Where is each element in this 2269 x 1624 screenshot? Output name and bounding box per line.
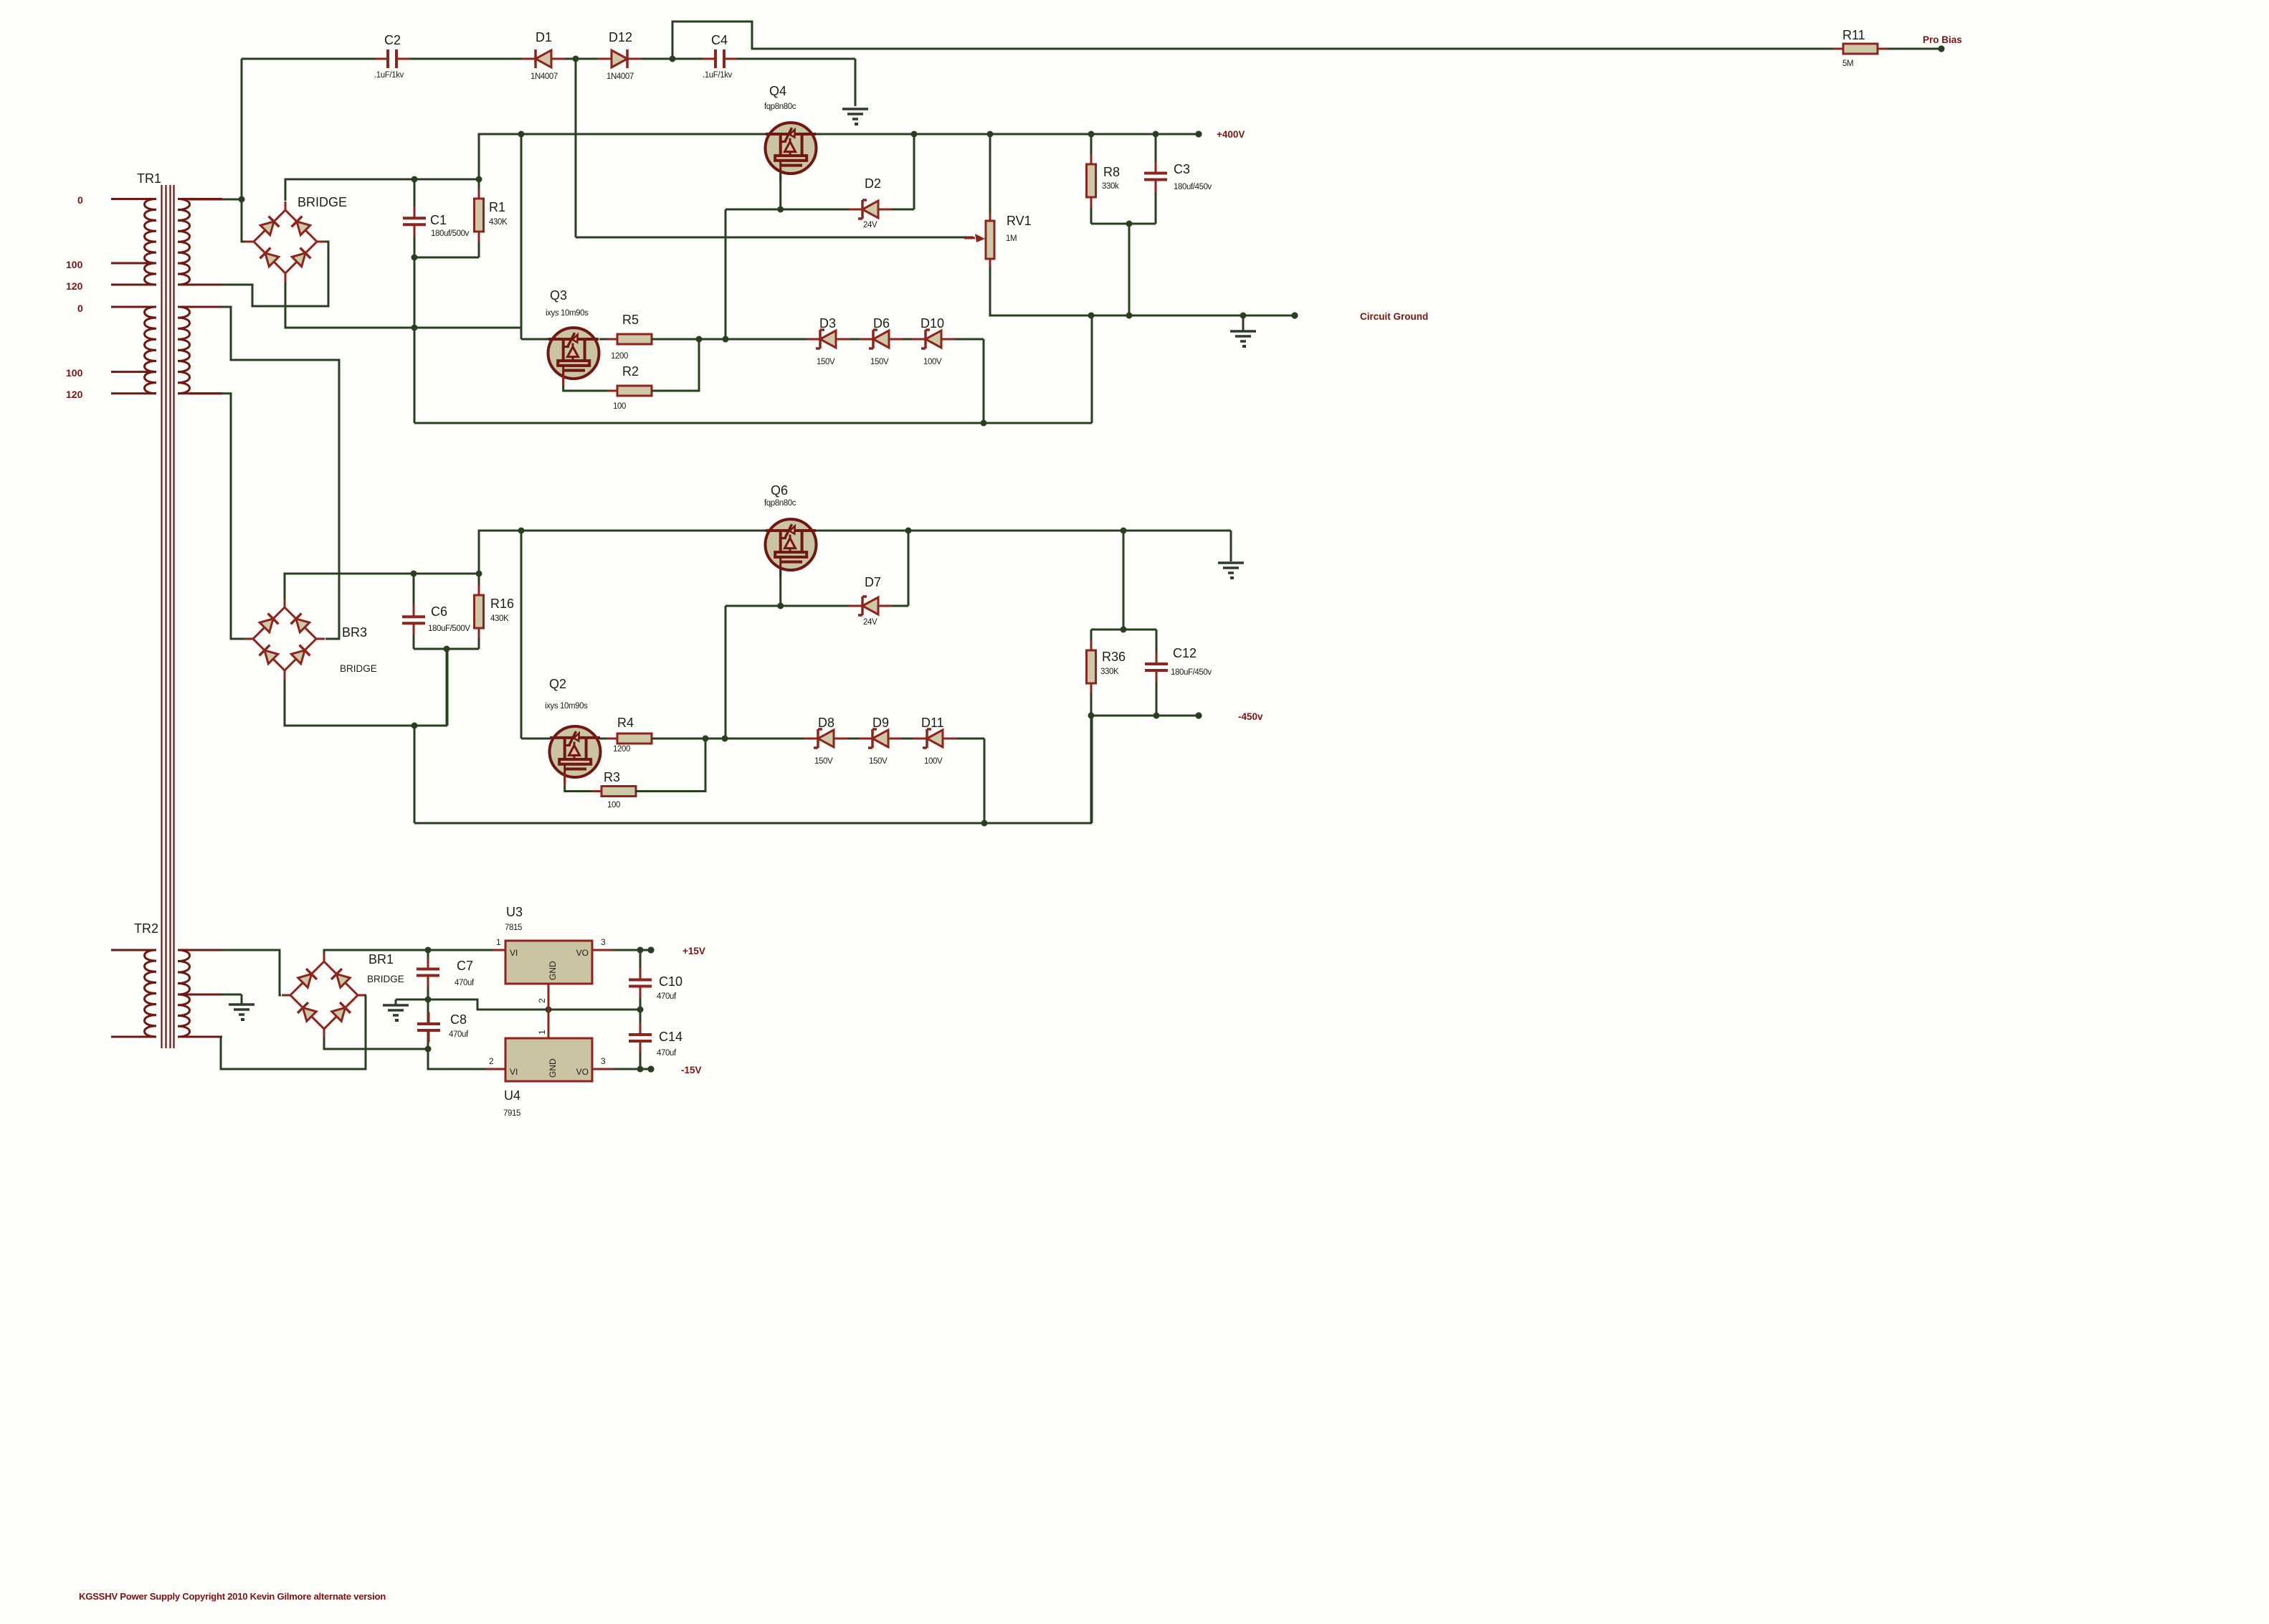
svg-text:+15V: +15V xyxy=(682,946,705,956)
svg-text:0: 0 xyxy=(77,303,83,314)
svg-text:3: 3 xyxy=(601,937,606,947)
svg-text:R4: R4 xyxy=(617,716,634,730)
svg-text:C6: C6 xyxy=(431,604,447,619)
svg-text:ixys 10m90s: ixys 10m90s xyxy=(546,309,589,318)
svg-text:1: 1 xyxy=(496,937,501,947)
svg-text:R16: R16 xyxy=(490,597,514,611)
svg-text:VO: VO xyxy=(576,948,589,958)
svg-text:100: 100 xyxy=(66,367,83,379)
svg-text:1: 1 xyxy=(537,1030,547,1035)
svg-text:ixys 10m90s: ixys 10m90s xyxy=(545,702,588,711)
svg-text:430K: 430K xyxy=(489,218,508,227)
svg-text:GND: GND xyxy=(548,961,558,980)
svg-text:R3: R3 xyxy=(604,770,620,784)
svg-text:120: 120 xyxy=(66,280,83,292)
svg-text:C14: C14 xyxy=(659,1030,682,1044)
svg-text:150V: 150V xyxy=(817,358,835,366)
svg-text:1N4007: 1N4007 xyxy=(531,72,558,81)
svg-text:GND: GND xyxy=(548,1058,558,1078)
svg-text:fqp8n80c: fqp8n80c xyxy=(764,103,796,111)
svg-text:150V: 150V xyxy=(814,757,833,766)
svg-text:Pro Bias: Pro Bias xyxy=(1923,34,1962,45)
svg-text:.1uF/1kv: .1uF/1kv xyxy=(703,71,733,80)
svg-text:24V: 24V xyxy=(863,221,877,229)
svg-text:5M: 5M xyxy=(1842,60,1853,68)
svg-text:Q2: Q2 xyxy=(549,677,566,691)
svg-text:D9: D9 xyxy=(872,716,889,730)
svg-text:Q3: Q3 xyxy=(550,288,567,303)
svg-text:100V: 100V xyxy=(923,358,942,366)
svg-text:470uf: 470uf xyxy=(657,992,677,1001)
svg-text:C7: C7 xyxy=(457,959,473,973)
svg-text:VO: VO xyxy=(576,1067,589,1077)
svg-text:180uF/450v: 180uF/450v xyxy=(1171,668,1212,677)
svg-text:470uf: 470uf xyxy=(455,979,475,987)
svg-text:C4: C4 xyxy=(711,33,728,47)
svg-text:R5: R5 xyxy=(622,313,639,327)
svg-text:BR3: BR3 xyxy=(342,625,367,640)
svg-text:470uf: 470uf xyxy=(657,1049,677,1058)
svg-text:U3: U3 xyxy=(506,905,523,919)
svg-text:180uf/500v: 180uf/500v xyxy=(431,229,470,238)
svg-text:TR2: TR2 xyxy=(134,921,158,936)
svg-text:C1: C1 xyxy=(430,213,447,227)
svg-text:24V: 24V xyxy=(863,618,877,627)
svg-text:C2: C2 xyxy=(384,33,401,47)
svg-text:7915: 7915 xyxy=(503,1109,520,1118)
svg-text:2: 2 xyxy=(489,1056,494,1066)
svg-text:D7: D7 xyxy=(865,575,881,589)
svg-text:120: 120 xyxy=(66,389,83,400)
svg-text:150V: 150V xyxy=(870,358,889,366)
svg-text:1200: 1200 xyxy=(613,745,630,754)
svg-text:100V: 100V xyxy=(924,757,943,766)
svg-text:1N4007: 1N4007 xyxy=(607,72,634,81)
svg-text:1200: 1200 xyxy=(611,352,628,361)
svg-text:VI: VI xyxy=(510,1067,518,1077)
svg-text:BRIDGE: BRIDGE xyxy=(298,195,347,209)
svg-text:D10: D10 xyxy=(921,316,944,331)
svg-text:7815: 7815 xyxy=(505,923,522,932)
svg-text:U4: U4 xyxy=(504,1088,520,1103)
svg-text:BRIDGE: BRIDGE xyxy=(340,663,377,674)
svg-text:C12: C12 xyxy=(1173,646,1197,660)
svg-text:1M: 1M xyxy=(1006,234,1017,243)
svg-text:TR1: TR1 xyxy=(137,171,161,186)
svg-text:BRIDGE: BRIDGE xyxy=(367,974,404,984)
svg-text:Q4: Q4 xyxy=(769,84,786,98)
svg-text:VI: VI xyxy=(510,948,518,958)
svg-text:330K: 330K xyxy=(1100,668,1119,676)
svg-text:fqp8n80c: fqp8n80c xyxy=(764,499,796,508)
svg-text:BR1: BR1 xyxy=(368,952,394,967)
svg-text:D12: D12 xyxy=(609,30,632,44)
svg-text:D3: D3 xyxy=(819,316,836,331)
svg-text:100: 100 xyxy=(607,801,620,809)
svg-text:C8: C8 xyxy=(450,1012,467,1027)
svg-text:100: 100 xyxy=(66,259,83,270)
svg-text:KGSSHV Power Supply Copyright: KGSSHV Power Supply Copyright 2010 Kevin… xyxy=(79,1591,386,1602)
svg-text:-450v: -450v xyxy=(1238,711,1263,722)
svg-text:180uf/450v: 180uf/450v xyxy=(1174,183,1212,191)
svg-text:.1uF/1kv: .1uF/1kv xyxy=(374,71,404,80)
svg-text:RV1: RV1 xyxy=(1007,214,1032,228)
svg-text:430K: 430K xyxy=(490,614,509,623)
svg-text:3: 3 xyxy=(601,1056,606,1066)
svg-text:0: 0 xyxy=(77,194,83,206)
svg-text:330k: 330k xyxy=(1102,182,1119,191)
svg-text:R11: R11 xyxy=(1842,28,1865,42)
svg-text:R2: R2 xyxy=(622,364,639,379)
svg-text:Q6: Q6 xyxy=(771,483,788,498)
svg-text:100: 100 xyxy=(613,402,626,411)
svg-text:150V: 150V xyxy=(869,757,888,766)
svg-text:C3: C3 xyxy=(1174,162,1190,176)
svg-text:D11: D11 xyxy=(921,716,944,730)
svg-text:470uf: 470uf xyxy=(449,1030,469,1039)
svg-text:+400V: +400V xyxy=(1217,129,1245,140)
svg-text:D1: D1 xyxy=(536,30,552,44)
svg-text:D6: D6 xyxy=(873,316,890,331)
svg-text:-15V: -15V xyxy=(681,1065,702,1075)
svg-text:D2: D2 xyxy=(865,176,881,191)
svg-text:R8: R8 xyxy=(1103,165,1120,179)
svg-text:Circuit Ground: Circuit Ground xyxy=(1360,311,1428,322)
svg-text:R1: R1 xyxy=(489,200,505,214)
svg-text:2: 2 xyxy=(537,998,547,1003)
svg-text:D8: D8 xyxy=(818,716,834,730)
svg-text:C10: C10 xyxy=(659,974,682,989)
svg-text:180uF/500V: 180uF/500V xyxy=(428,625,470,633)
svg-text:R36: R36 xyxy=(1102,650,1126,664)
